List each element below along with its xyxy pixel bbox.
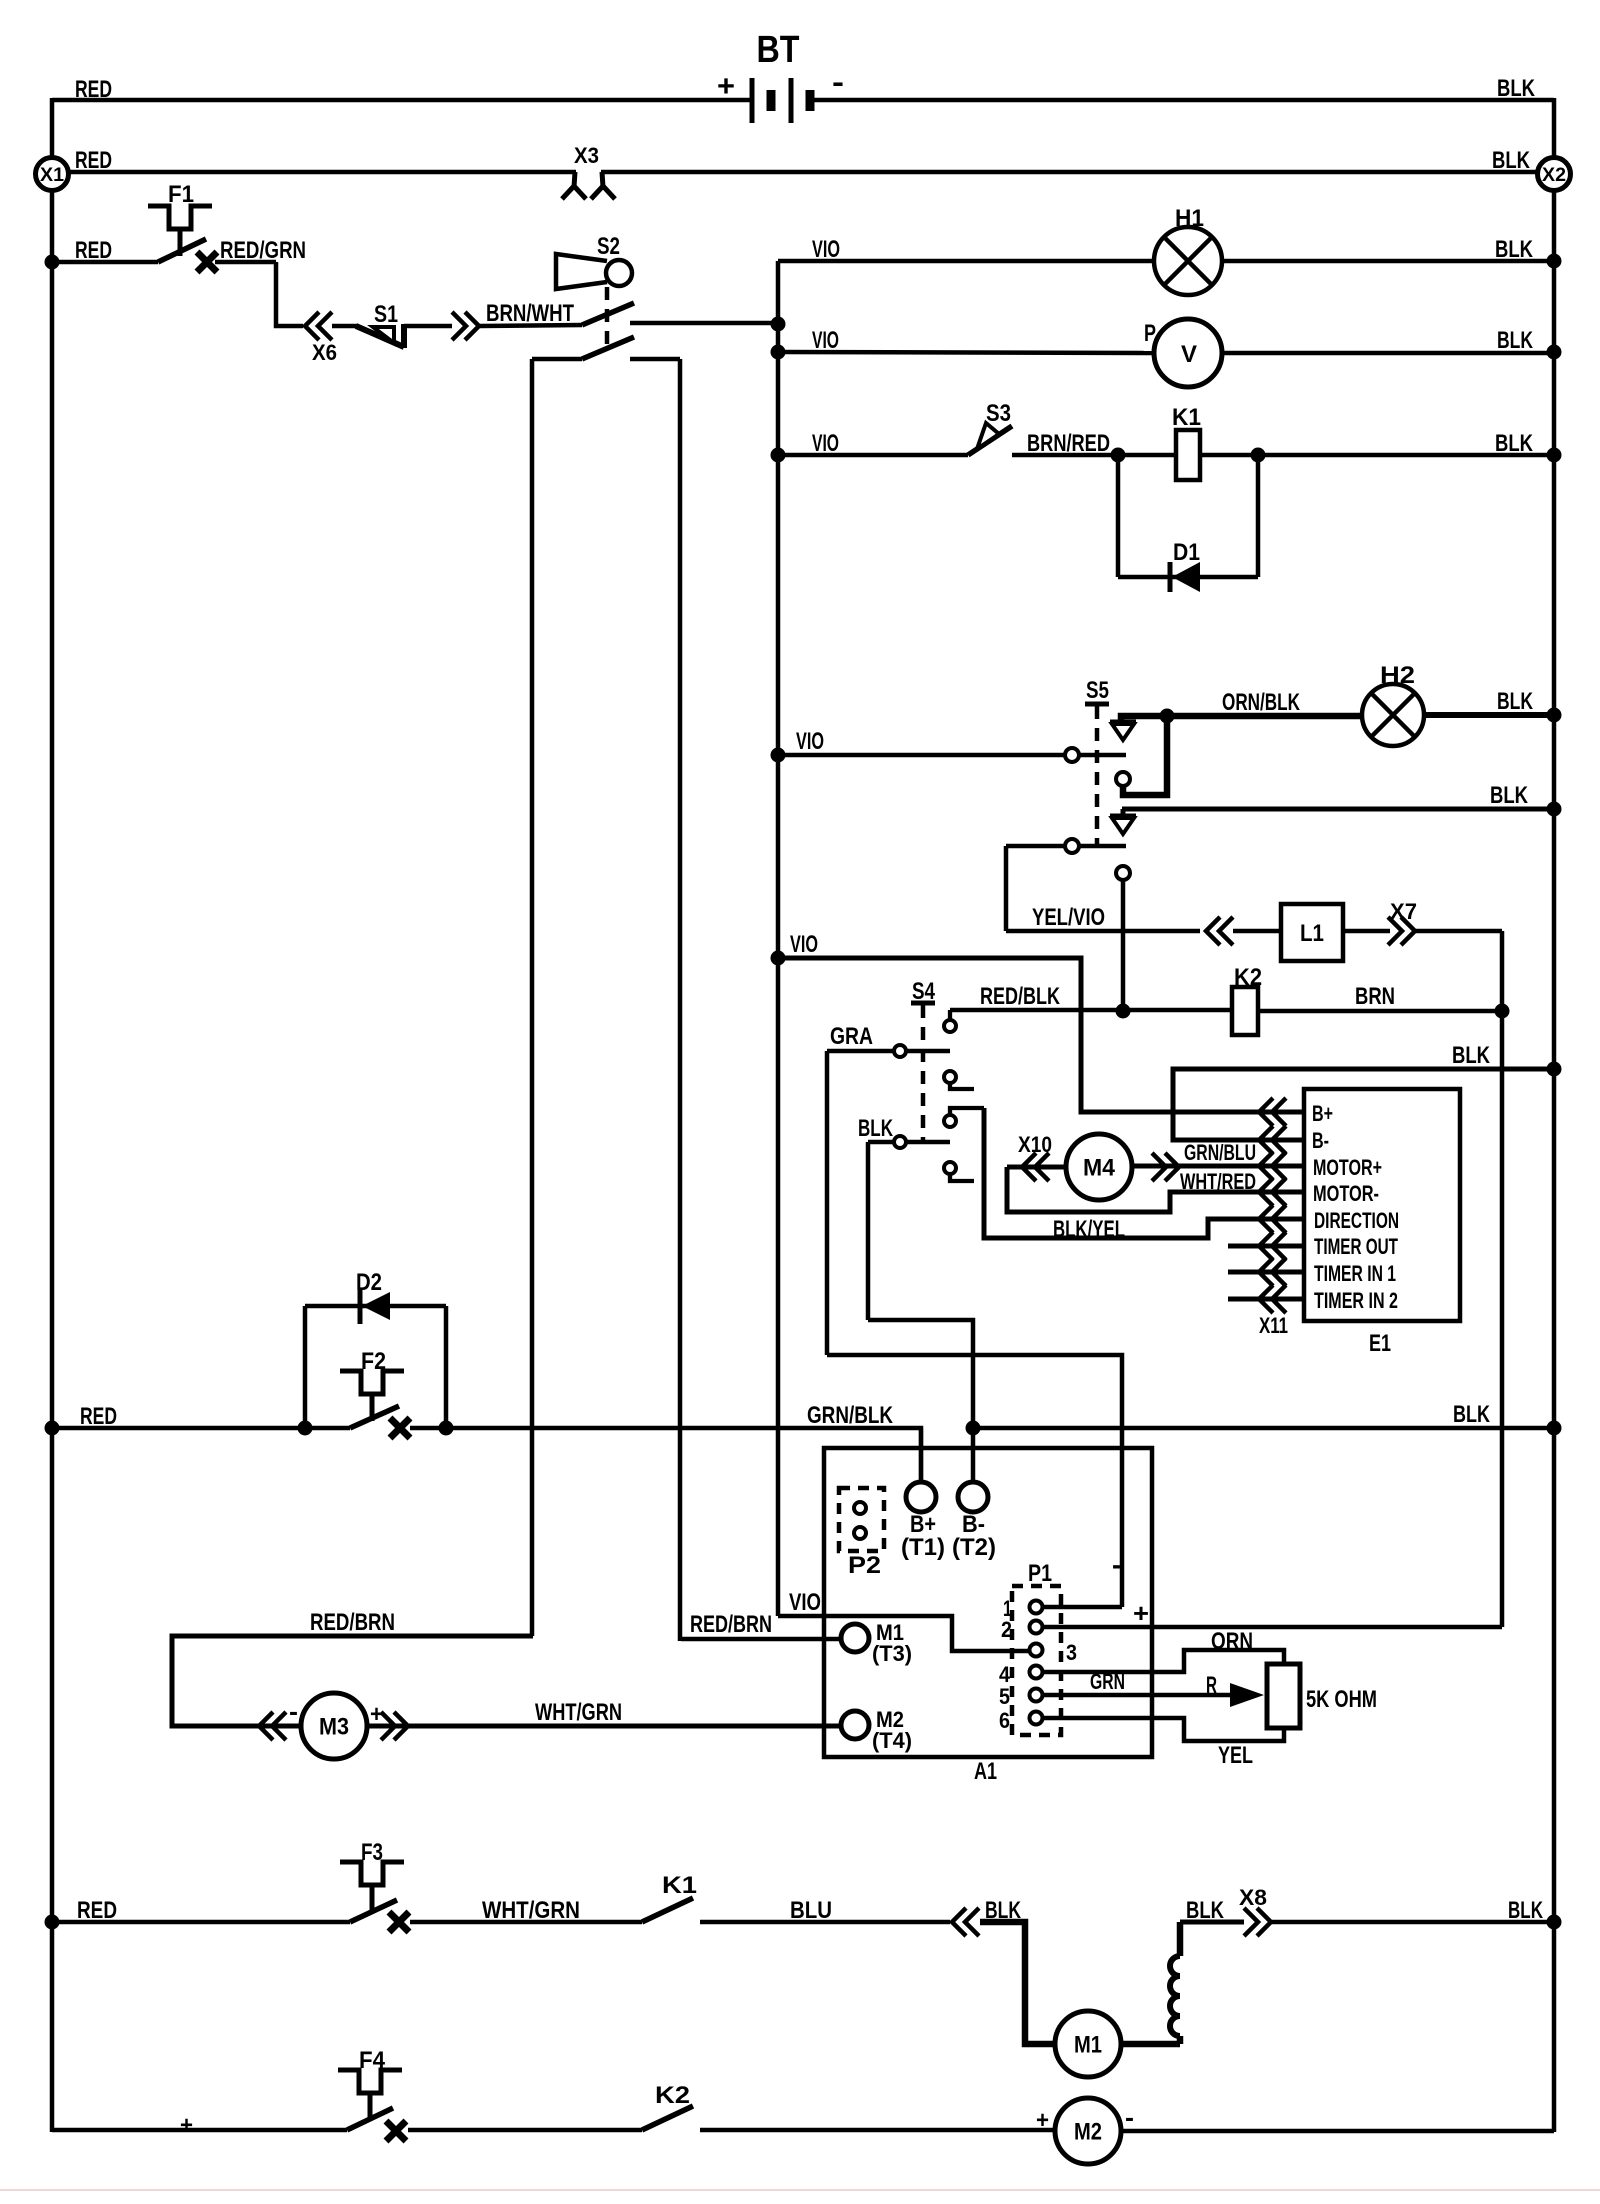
wire S1 to connector — [404, 324, 452, 329]
svg-text:+: + — [1133, 1598, 1149, 1628]
svg-text:K1: K1 — [1172, 404, 1201, 431]
switch S2 pole 2 lever — [582, 337, 634, 359]
svg-text:TIMER IN 2: TIMER IN 2 — [1314, 1288, 1398, 1313]
fuse F3 X mark — [389, 1912, 409, 1932]
svg-text:K1: K1 — [662, 1872, 697, 1899]
node right rail E1 BLK — [1547, 1062, 1562, 1077]
wire coil to X8 — [1180, 1920, 1244, 1925]
switch S5 contact 1a arrow — [1110, 722, 1136, 740]
pin label B- — [1312, 1128, 1329, 1153]
fuse F3 — [340, 1839, 404, 1912]
svg-text:H1: H1 — [1175, 205, 1204, 232]
svg-text:BLU: BLU — [790, 1897, 832, 1924]
switch S5 pole2 line — [1079, 844, 1126, 849]
label BLK row H1 — [1495, 236, 1534, 263]
label GRN/BLU — [1184, 1140, 1256, 1165]
svg-text:RED/BRN: RED/BRN — [690, 1611, 772, 1638]
svg-text:-: - — [289, 1696, 298, 1726]
switch S4 contact3 — [944, 1108, 984, 1127]
svg-text:X3: X3 — [574, 143, 599, 168]
wire GRA to P1 pin1 — [827, 1355, 1122, 1607]
motor M3 — [301, 1693, 367, 1759]
label ORN — [1211, 1628, 1253, 1655]
label BRN — [1355, 983, 1395, 1010]
node VIO bus B+ junction — [771, 951, 786, 966]
node K1 left leg — [1111, 448, 1126, 463]
wire ORN/BLK to H2 — [1167, 713, 1362, 720]
svg-text:R: R — [1206, 1672, 1217, 1699]
connector M3 left chevrons — [259, 1696, 298, 1740]
separator line bottom — [0, 2189, 1600, 2191]
wire S5 BLK row — [1122, 807, 1554, 812]
wire M1 to coil — [1121, 2041, 1180, 2048]
wire K2 to M2 — [700, 2128, 1055, 2133]
label VIO row S5 — [796, 728, 824, 755]
svg-text:BRN: BRN — [1355, 983, 1395, 1010]
switch S4 poleA wire — [827, 1049, 893, 1054]
svg-text:F1: F1 — [168, 181, 194, 208]
svg-text:(T1): (T1) — [901, 1534, 945, 1561]
diode D2 — [356, 1269, 390, 1324]
wire P1 pin6 YEL — [1043, 1718, 1284, 1741]
wire BRN/WHT to S2 — [480, 325, 582, 326]
pin label DIRECTION — [1314, 1208, 1399, 1233]
wire X7 to riser — [1416, 929, 1502, 934]
wire S2 pole2 contact drop — [678, 359, 683, 1641]
wire left rail to F4 — [52, 2128, 347, 2133]
svg-text:K2: K2 — [655, 2082, 690, 2109]
svg-text:BRN/RED: BRN/RED — [1027, 430, 1110, 457]
connector X11 B+ — [1259, 1098, 1286, 1126]
wire S2 pole2 left — [532, 357, 582, 362]
connector X11 TIMER OUT — [1259, 1232, 1286, 1260]
connector X8 — [1239, 1885, 1271, 1936]
svg-text:F3: F3 — [361, 1839, 383, 1866]
node VIO bus S2 junction — [771, 317, 786, 332]
switch S5 pole1 line — [1079, 753, 1126, 758]
switch S5 pole2 wire — [1006, 844, 1065, 849]
svg-text:BLK: BLK — [1497, 327, 1533, 354]
svg-text:VIO: VIO — [812, 327, 839, 354]
label WHT/RED — [1180, 1169, 1256, 1194]
wire S4 poleB to B- — [868, 1320, 973, 1482]
svg-text:K2: K2 — [1234, 964, 1262, 991]
wire left rail to F1 — [52, 260, 158, 265]
svg-text:BLK: BLK — [1495, 430, 1534, 457]
wire BLK/YEL — [984, 1108, 1304, 1238]
node right rail V — [1547, 345, 1562, 360]
node right rail X8 — [1547, 1915, 1562, 1930]
svg-text:M4: M4 — [1083, 1154, 1116, 1181]
label VIO row V — [812, 327, 839, 354]
connector X11 DIRECTION — [1259, 1205, 1286, 1233]
wire P1 pin4 ORN — [1043, 1650, 1284, 1672]
switch S4 link — [911, 978, 936, 1144]
switch S4 poleA line — [907, 1049, 950, 1054]
svg-text:A1: A1 — [974, 1758, 997, 1785]
connector YEL/VIO chevrons — [1206, 917, 1233, 945]
node BRN X7 junction — [1495, 1004, 1510, 1019]
module E1 box — [1304, 1089, 1460, 1321]
lamp H1 — [1154, 205, 1222, 295]
motor M4 — [1066, 1134, 1132, 1200]
svg-text:BLK: BLK — [1186, 1897, 1225, 1924]
wire K2 to BRN junction — [1258, 1009, 1502, 1014]
label BLK S4 — [858, 1115, 893, 1142]
node ORN/BLK junction — [1160, 709, 1175, 724]
switch S4 contact4 — [944, 1162, 974, 1181]
wire F4 to K2 — [408, 2128, 642, 2133]
svg-text:S1: S1 — [374, 301, 398, 328]
node D2 right junction — [439, 1421, 454, 1436]
svg-text:-: - — [832, 66, 844, 99]
wire left rail — [50, 98, 55, 2132]
switch S4 poleB terminal — [894, 1136, 906, 1148]
wire S5 contact 2b drop — [1121, 880, 1126, 1011]
label WHT/GRN bottom — [482, 1897, 580, 1924]
svg-text:MOTOR-: MOTOR- — [1313, 1181, 1379, 1206]
label YEL/VIO — [1032, 904, 1105, 931]
svg-text:F2: F2 — [361, 1348, 386, 1375]
svg-text:P: P — [1144, 320, 1156, 347]
wire VIO to S5 pole1 — [778, 753, 1065, 758]
node right rail S5 BLK — [1547, 802, 1562, 817]
svg-text:P2: P2 — [848, 1552, 881, 1579]
node left rail F2 junction — [45, 1421, 60, 1436]
svg-text:V: V — [1181, 341, 1197, 368]
svg-text:D1: D1 — [1173, 539, 1200, 566]
label YEL — [1218, 1742, 1253, 1769]
svg-text:F4: F4 — [359, 2047, 386, 2074]
node VIO bus S3 junction — [771, 448, 786, 463]
wire M4 to MOTOR+ — [1132, 1164, 1304, 1169]
wire X3 to X2 — [601, 170, 1554, 175]
switch S5 contact 2b terminal — [1116, 866, 1130, 880]
label BLK row2 — [1492, 147, 1531, 174]
connector S1 chevrons — [452, 312, 479, 340]
wire right rail — [1552, 98, 1557, 2132]
svg-text:X6: X6 — [312, 340, 337, 365]
wire M2 to right rail — [1121, 2129, 1554, 2134]
node left rail F1 junction — [45, 255, 60, 270]
label ORN/BLK — [1222, 689, 1300, 716]
label BLK row E1 — [1452, 1042, 1491, 1069]
svg-text:M1: M1 — [1074, 2031, 1102, 2058]
svg-text:5: 5 — [999, 1684, 1010, 1709]
switch F3 lever — [350, 1900, 397, 1922]
switch S4 poleB riser — [866, 1142, 871, 1320]
pin label B+ — [1312, 1101, 1333, 1126]
connector X7 — [1388, 899, 1417, 945]
wire VIO to H1 — [778, 259, 1154, 264]
label BLK before X8 — [1186, 1897, 1225, 1924]
pin label TIMER OUT — [1314, 1234, 1398, 1259]
wire GRA riser — [825, 1051, 830, 1355]
svg-text:BLK: BLK — [1497, 75, 1536, 102]
label RED top-left — [75, 76, 112, 103]
label BLK row V — [1497, 327, 1533, 354]
terminal M1 (T3) — [841, 1620, 912, 1666]
svg-text:RED/BLK: RED/BLK — [980, 983, 1060, 1010]
wire P1 pin2 plus — [1043, 1625, 1502, 1630]
svg-text:ORN: ORN — [1211, 1628, 1253, 1655]
wire X7 riser down — [1500, 931, 1505, 1627]
svg-text:B-: B- — [1312, 1128, 1329, 1153]
svg-text:RED: RED — [77, 1897, 117, 1924]
wire RED/BRN left — [172, 1636, 533, 1726]
label RED row2 — [75, 147, 112, 174]
wire chevron to L1 — [1233, 929, 1281, 934]
svg-text:+: + — [717, 70, 735, 103]
label BLK/YEL — [1053, 1216, 1125, 1243]
svg-text:RED: RED — [75, 76, 112, 103]
label BLK row B- — [1453, 1401, 1490, 1428]
relay coil K2 — [1232, 964, 1262, 1035]
wire L1 to X7 — [1343, 929, 1390, 934]
svg-text:B+: B+ — [1312, 1101, 1333, 1126]
svg-text:X11: X11 — [1259, 1313, 1288, 1338]
svg-text:M2: M2 — [1074, 2118, 1102, 2145]
resistor R 5K OHM — [1267, 1664, 1377, 1728]
svg-text:5K OHM: 5K OHM — [1306, 1686, 1377, 1713]
wire TIMER OUT stub — [1228, 1244, 1304, 1249]
svg-text:VIO: VIO — [796, 728, 824, 755]
pin label TIMER IN 2 — [1314, 1288, 1398, 1313]
svg-text:TIMER OUT: TIMER OUT — [1314, 1234, 1398, 1259]
svg-text:VIO: VIO — [789, 1589, 821, 1616]
svg-text:WHT/RED: WHT/RED — [1180, 1169, 1256, 1194]
wire X10 to M4 — [1007, 1165, 1066, 1170]
wire battery negative feed (BLK) — [812, 98, 1554, 103]
wire step down to X6 — [276, 262, 303, 326]
node K1 right leg — [1251, 448, 1266, 463]
wire RED/BLK — [950, 1008, 1232, 1013]
label BLK row S5 — [1490, 782, 1529, 809]
switch S4 contact1 terminal — [944, 1010, 956, 1032]
svg-text:YEL: YEL — [1218, 1742, 1253, 1769]
label X11 — [1259, 1313, 1288, 1338]
terminal M2 (T4) — [841, 1707, 912, 1753]
relay contact K2 — [642, 2082, 693, 2130]
svg-text:6: 6 — [999, 1708, 1010, 1733]
svg-text:RED/BRN: RED/BRN — [310, 1609, 395, 1636]
wire D1 row — [1118, 575, 1258, 580]
wire K1 to chevron (BLU) — [700, 1920, 950, 1925]
svg-text:RED: RED — [75, 237, 112, 264]
connector X6 — [305, 312, 337, 365]
node right rail H2 — [1547, 708, 1562, 723]
label BLK row K1 — [1495, 430, 1534, 457]
potentiometer R wiper — [1206, 1672, 1264, 1707]
wire VIO bus — [776, 261, 781, 1616]
wire YEL/VIO row — [1006, 929, 1200, 934]
label RED/BLK — [980, 983, 1060, 1010]
connector M3 right chevrons — [370, 1701, 408, 1740]
node right rail B- BLK — [1547, 1421, 1562, 1436]
svg-text:E1: E1 — [1369, 1330, 1391, 1357]
node VIO bus S5 junction — [771, 748, 786, 763]
fuse F2 X mark — [390, 1418, 410, 1438]
svg-text:BT: BT — [757, 29, 800, 71]
wire VIO to voltmeter — [778, 352, 1156, 353]
label BLK row X8 — [1508, 1897, 1543, 1924]
node right rail K1 — [1547, 448, 1562, 463]
pin P1-2 — [1001, 1617, 1043, 1642]
svg-text:BLK/YEL: BLK/YEL — [1053, 1216, 1125, 1243]
connector X11 TIMER IN 1 — [1259, 1258, 1286, 1286]
label RED row3 — [75, 237, 112, 264]
svg-text:S3: S3 — [986, 400, 1011, 427]
fuse F1 X mark — [197, 252, 217, 272]
label VIO A1 — [789, 1589, 821, 1616]
svg-text:BLK: BLK — [1453, 1401, 1490, 1428]
fuse F1 — [148, 181, 212, 256]
connector P1 — [1012, 1560, 1061, 1735]
svg-text:BRN/WHT: BRN/WHT — [486, 300, 574, 327]
label BLK top-right — [1497, 75, 1536, 102]
wire TIMER IN 1 stub — [1228, 1270, 1304, 1275]
svg-text:VIO: VIO — [812, 430, 839, 457]
svg-text:DIRECTION: DIRECTION — [1314, 1208, 1399, 1233]
svg-text:RED/GRN: RED/GRN — [220, 237, 306, 264]
node D2 left junction — [298, 1421, 313, 1436]
svg-text:BLK: BLK — [1490, 782, 1529, 809]
wire H2 to right rail (BLK) — [1424, 712, 1554, 718]
label plus M2 — [1036, 2107, 1049, 2134]
pin P1-1 — [1003, 1596, 1043, 1621]
node right rail H1 — [1547, 254, 1562, 269]
wire S2 pole2 left drop — [530, 359, 535, 1636]
relay coil K1 — [1172, 404, 1201, 480]
motor M2 bottom — [1055, 2098, 1121, 2164]
label VIO row E1 — [790, 931, 818, 958]
wire YEL/VIO riser — [1004, 846, 1009, 931]
motor M1 bottom — [1055, 2011, 1121, 2077]
svg-text:L1: L1 — [1300, 920, 1324, 947]
wire VIO to S3 — [778, 453, 968, 458]
inductor M1 field coil — [1170, 1922, 1180, 2044]
wire D1 left leg — [1116, 455, 1121, 577]
wire K1 to right rail (BLK) — [1200, 453, 1554, 458]
svg-text:GRN/BLU: GRN/BLU — [1184, 1140, 1256, 1165]
label E1 — [1369, 1330, 1391, 1357]
svg-text:M3: M3 — [319, 1713, 349, 1740]
svg-text:VIO: VIO — [812, 236, 840, 263]
connector BLK chevrons row1 — [952, 1908, 979, 1936]
switch S4 poleB wire — [868, 1140, 893, 1145]
wire F3 to K1 — [410, 1920, 642, 1925]
svg-text:S2: S2 — [597, 233, 620, 260]
svg-text:VIO: VIO — [790, 931, 818, 958]
connector P2 — [839, 1488, 884, 1579]
pin P1-6 — [999, 1708, 1043, 1733]
svg-text:P1: P1 — [1028, 1560, 1052, 1587]
svg-text:BLK: BLK — [1495, 236, 1534, 263]
label minus M2 — [1125, 2102, 1134, 2132]
relay contact K1 — [642, 1872, 697, 1922]
connector X11 MOTOR+ — [1259, 1152, 1286, 1180]
svg-text:MOTOR+: MOTOR+ — [1313, 1155, 1382, 1180]
wire B- to right rail (BLK) — [973, 1426, 1554, 1431]
diode D1 — [1170, 539, 1200, 592]
svg-text:-: - — [1112, 1549, 1121, 1580]
connector X11 B- — [1259, 1126, 1286, 1154]
inductor L1 — [1281, 904, 1343, 961]
svg-text:X7: X7 — [1390, 899, 1417, 924]
pin P1-4 — [999, 1662, 1043, 1687]
wire E1 BLK row — [1173, 1069, 1554, 1140]
label plus F4 row — [180, 2112, 193, 2139]
switch S5 link — [1085, 677, 1109, 845]
wire left rail to F2 — [52, 1426, 350, 1431]
svg-text:ORN/BLK: ORN/BLK — [1222, 689, 1300, 716]
wire P1 pin1 — [1043, 1605, 1122, 1610]
label BRN/RED — [1027, 430, 1110, 457]
wire S5 contact1a to ORN/BLK junction — [1121, 716, 1167, 722]
svg-text:BLK: BLK — [1508, 1897, 1543, 1924]
switch S5 pole1 terminal — [1065, 748, 1079, 762]
svg-text:H2: H2 — [1380, 662, 1415, 689]
wire D2 row — [305, 1304, 446, 1309]
switch S1 — [356, 301, 404, 348]
svg-text:S5: S5 — [1086, 677, 1109, 704]
label RED/GRN — [220, 237, 306, 264]
fuse F4 — [338, 2047, 402, 2120]
label RED/BRN right — [690, 1611, 772, 1638]
svg-text:BLK: BLK — [858, 1115, 893, 1142]
svg-text:WHT/GRN: WHT/GRN — [482, 1897, 580, 1924]
wire X1 to X3 — [52, 170, 576, 175]
terminal B+ (T1) — [901, 1428, 945, 1561]
svg-text:X1: X1 — [40, 165, 64, 186]
connector X10 — [1018, 1132, 1052, 1181]
wire F2 to B+ terminal — [410, 1428, 921, 1482]
pin P1-5 — [999, 1684, 1043, 1709]
voltmeter P — [1144, 319, 1222, 387]
wire D2 right leg — [444, 1306, 449, 1428]
wire X6 to S1 — [332, 324, 358, 329]
switch S4 poleA terminal — [894, 1045, 906, 1057]
pin label TIMER IN 1 — [1314, 1261, 1396, 1286]
connector X11 MOTOR- — [1259, 1178, 1286, 1206]
svg-text:(T3): (T3) — [872, 1641, 912, 1666]
svg-text:+: + — [1036, 2107, 1049, 2134]
battery BT label — [757, 29, 800, 71]
svg-text:-: - — [1125, 2102, 1134, 2132]
svg-text:(T2): (T2) — [952, 1534, 996, 1561]
connector X2 — [1538, 158, 1571, 191]
connector M4 chevrons — [1152, 1153, 1179, 1181]
wire X8 to right rail (BLK) — [1272, 1920, 1554, 1925]
lamp H2 — [1362, 662, 1424, 746]
connector X11 TIMER IN 2 — [1259, 1285, 1286, 1313]
svg-text:GRN: GRN — [1090, 1669, 1125, 1694]
wire S2 pole2 contact — [630, 357, 680, 362]
wire VIO to P1 pin3 — [778, 1616, 1030, 1651]
wire S2 pole1 contact to VIO bus — [630, 321, 778, 326]
wire chevron to M1 — [980, 1922, 1055, 2044]
svg-text:GRA: GRA — [830, 1023, 873, 1050]
label GRN/BLK — [807, 1402, 894, 1429]
svg-text:X8: X8 — [1239, 1885, 1267, 1910]
wire VIO to E1 B+ — [778, 958, 1304, 1112]
label RED row F2 — [80, 1403, 117, 1430]
label A1 — [974, 1758, 997, 1785]
label BRN/WHT — [486, 300, 574, 327]
wire D2 left leg — [303, 1306, 308, 1428]
switch F2 lever — [350, 1406, 399, 1428]
switch S4 poleB line — [907, 1140, 950, 1145]
